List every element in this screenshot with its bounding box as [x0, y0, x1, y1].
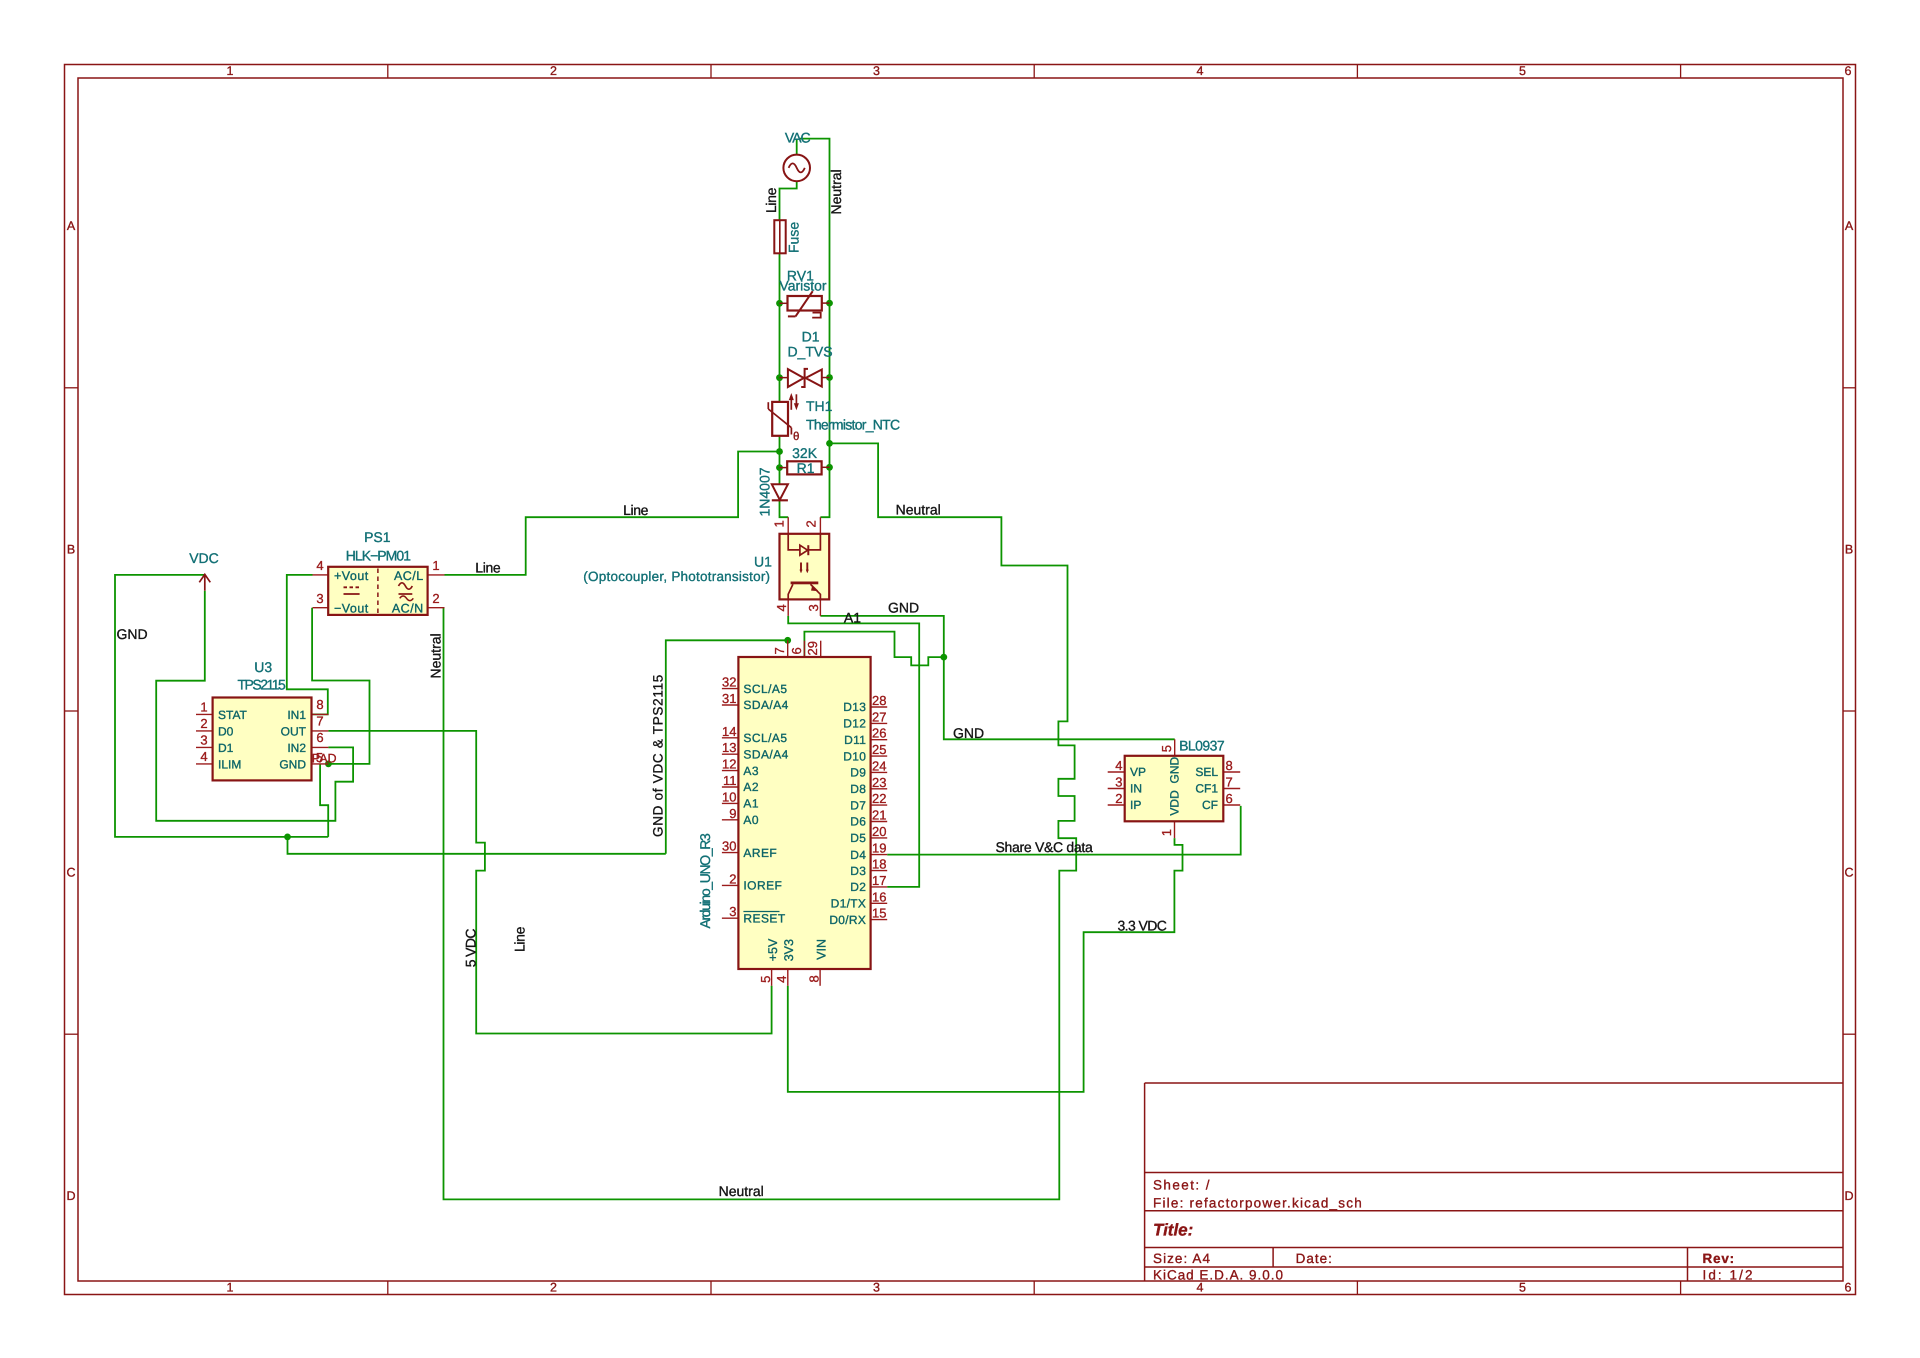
wire line branch to PS1 AC/L [445, 452, 780, 575]
svg-text:3: 3 [873, 64, 880, 78]
svg-text:5: 5 [1519, 1281, 1526, 1295]
svg-text:6: 6 [1845, 64, 1852, 78]
svg-text:Line: Line [512, 926, 528, 952]
wire GND junction to BL0937 pin5 [944, 657, 1175, 739]
svg-text:20: 20 [872, 824, 886, 839]
svg-text:OUT: OUT [281, 724, 307, 738]
svg-text:4: 4 [1197, 1281, 1204, 1295]
svg-text:HLK−PM01: HLK−PM01 [346, 548, 411, 564]
svg-text:Neutral: Neutral [719, 1183, 764, 1199]
svg-text:Line: Line [623, 502, 649, 518]
svg-text:Arduino_UNO_R3: Arduino_UNO_R3 [697, 833, 713, 928]
svg-text:10: 10 [722, 789, 736, 804]
energy meter U2 BL0937 [1108, 738, 1241, 838]
svg-text:D8: D8 [850, 782, 866, 796]
svg-text:IN2: IN2 [287, 741, 306, 755]
svg-text:7: 7 [316, 713, 323, 728]
svg-text:+Vout: +Vout [334, 569, 369, 583]
wire U3 GND pad drop to GND rail [320, 764, 328, 837]
svg-text:1: 1 [227, 1281, 234, 1295]
svg-text:D12: D12 [843, 717, 866, 731]
svg-text:1: 1 [200, 699, 207, 714]
svg-text:D11: D11 [844, 733, 866, 747]
svg-text:19: 19 [872, 841, 886, 856]
fuse Fuse [774, 220, 801, 253]
svg-text:GND: GND [117, 626, 148, 642]
svg-text:5 VDC: 5 VDC [462, 929, 478, 968]
svg-text:2: 2 [550, 1281, 557, 1295]
svg-text:1: 1 [1159, 829, 1174, 836]
wire PS1 +Vout to U3 IN1 [287, 575, 328, 715]
svg-text:23: 23 [872, 775, 886, 790]
svg-text:26: 26 [872, 726, 886, 741]
svg-text:30: 30 [722, 839, 736, 854]
svg-text:SEL: SEL [1195, 765, 1218, 779]
junction GND rail [284, 834, 291, 841]
svg-text:1: 1 [772, 520, 787, 527]
svg-text:3: 3 [200, 732, 207, 747]
svg-text:3V3: 3V3 [782, 939, 796, 961]
svg-text:C: C [1844, 866, 1853, 880]
svg-text:A1: A1 [743, 797, 759, 811]
svg-text:Sheet: /: Sheet: / [1153, 1178, 1211, 1193]
svg-text:15: 15 [872, 906, 886, 921]
svg-text:B: B [67, 543, 75, 557]
svg-text:2: 2 [550, 64, 557, 78]
svg-text:D2: D2 [850, 880, 866, 894]
svg-text:1: 1 [227, 64, 234, 78]
svg-text:18: 18 [872, 857, 886, 872]
wire U1 pin3 to GND junction [820, 616, 943, 657]
wire GND left net [115, 575, 328, 837]
svg-text:8: 8 [806, 975, 821, 982]
junction line branch [776, 448, 783, 455]
ac voltage source VAC [783, 130, 810, 182]
wire U3 GND pad to -Vout [312, 608, 369, 764]
svg-text:16: 16 [872, 889, 886, 904]
svg-text:D5: D5 [850, 831, 866, 845]
junction Arduino pin7 GND [784, 637, 791, 644]
svg-text:B: B [1845, 543, 1853, 557]
svg-text:BL0937: BL0937 [1179, 738, 1225, 754]
svg-text:IP: IP [1130, 798, 1141, 812]
svg-text:27: 27 [872, 709, 886, 724]
svg-text:D0/RX: D0/RX [829, 913, 866, 927]
svg-text:A1: A1 [844, 609, 861, 625]
svg-text:32K: 32K [792, 445, 818, 461]
svg-text:D: D [1844, 1189, 1853, 1203]
svg-text:D0: D0 [218, 724, 234, 738]
svg-text:VIN: VIN [814, 939, 828, 960]
svg-text:Fuse: Fuse [786, 222, 802, 253]
svg-text:Thermistor_NTC: Thermistor_NTC [806, 417, 900, 433]
title block [1145, 1083, 1843, 1283]
svg-text:D1/TX: D1/TX [831, 897, 867, 911]
svg-text:22: 22 [872, 791, 886, 806]
svg-text:2: 2 [1115, 791, 1122, 806]
svg-text:25: 25 [872, 742, 886, 757]
svg-text:D_TVS: D_TVS [787, 344, 832, 360]
svg-text:7: 7 [1226, 775, 1233, 790]
svg-text:14: 14 [722, 724, 736, 739]
svg-text:+5V: +5V [766, 938, 780, 961]
svg-text:A3: A3 [743, 764, 759, 778]
svg-text:6: 6 [316, 730, 323, 745]
svg-text:−Vout: −Vout [334, 602, 369, 616]
svg-text:IN: IN [1130, 782, 1142, 796]
svg-text:Date:: Date: [1296, 1251, 1333, 1266]
junction TVS right [826, 374, 833, 381]
resistor R1 32K [780, 445, 830, 476]
svg-text:1N4007: 1N4007 [756, 467, 772, 516]
svg-text:SCL/A5: SCL/A5 [743, 682, 787, 696]
varistor RV1 [779, 268, 829, 318]
wire neutral branch junction to PS1 AC/N [444, 443, 1077, 1199]
svg-text:IN1: IN1 [287, 708, 306, 722]
svg-text:D1: D1 [802, 329, 820, 345]
optocoupler U1 [583, 517, 829, 616]
svg-text:Line: Line [475, 560, 501, 576]
svg-text:4: 4 [1115, 758, 1122, 773]
svg-text:ILIM: ILIM [218, 757, 241, 771]
svg-text:3: 3 [729, 904, 736, 919]
svg-text:3: 3 [316, 591, 323, 606]
svg-text:Id: 1/2: Id: 1/2 [1703, 1268, 1755, 1283]
svg-text:3: 3 [1115, 775, 1122, 790]
junction varistor left [776, 300, 783, 307]
svg-text:6: 6 [1226, 791, 1233, 806]
svg-text:D13: D13 [843, 700, 866, 714]
wire VAC label to neutral rail [800, 139, 830, 518]
svg-text:TPS2115: TPS2115 [237, 677, 286, 693]
svg-text:28: 28 [872, 693, 886, 708]
svg-text:Neutral: Neutral [428, 633, 444, 678]
svg-text:GND: GND [888, 599, 919, 615]
svg-text:2: 2 [432, 591, 439, 606]
svg-text:AC/L: AC/L [394, 569, 424, 583]
svg-text:4: 4 [774, 976, 789, 983]
svg-text:D6: D6 [850, 815, 866, 829]
svg-text:GND: GND [1167, 757, 1181, 784]
svg-text:Title:: Title: [1153, 1221, 1193, 1240]
svg-text:R1: R1 [797, 460, 815, 476]
svg-text:GND of VDC & TPS2115: GND of VDC & TPS2115 [651, 674, 666, 837]
power mux U3 TPS2115 [196, 659, 337, 781]
wire A1 net U1 pin4 to Arduino D2 [788, 616, 919, 887]
svg-text:AC/N: AC/N [392, 602, 424, 616]
svg-text:1: 1 [432, 558, 439, 573]
svg-text:3: 3 [873, 1281, 880, 1295]
svg-text:KiCad E.D.A. 9.0.0: KiCad E.D.A. 9.0.0 [1153, 1268, 1284, 1283]
junction TVS left [776, 374, 783, 381]
svg-text:5: 5 [1519, 64, 1526, 78]
svg-text:7: 7 [772, 647, 787, 654]
svg-text:D4: D4 [850, 848, 866, 862]
svg-text:5: 5 [316, 750, 323, 765]
svg-text:θ: θ [793, 431, 799, 443]
svg-text:CF: CF [1202, 798, 1218, 812]
svg-text:A0: A0 [743, 813, 759, 827]
svg-text:D3: D3 [850, 864, 866, 878]
junction neutral branch [826, 440, 833, 447]
svg-text:5: 5 [758, 976, 773, 983]
svg-text:D7: D7 [850, 798, 866, 812]
svg-text:D9: D9 [850, 766, 866, 780]
svg-text:SDA/A4: SDA/A4 [743, 698, 788, 712]
svg-text:2: 2 [804, 520, 819, 527]
svg-text:Line: Line [763, 187, 779, 213]
power symbol VDC arrow [199, 574, 210, 590]
svg-text:A: A [1845, 219, 1854, 233]
svg-text:12: 12 [722, 757, 736, 772]
svg-text:CF1: CF1 [1195, 782, 1218, 796]
svg-text:VDD: VDD [1167, 790, 1181, 816]
wire share V&C data Arduino D4 to BL0937 CF [887, 806, 1240, 855]
svg-text:3: 3 [806, 604, 821, 611]
svg-text:D1: D1 [218, 741, 234, 755]
wire Arduino pin6 GND with hop [804, 632, 943, 666]
power supply PS1 HLK-PM01 [313, 529, 445, 616]
svg-text:6: 6 [1845, 1281, 1852, 1295]
wire U3 OUT to Arduino +5V with hop [328, 731, 771, 1034]
svg-text:SDA/A4: SDA/A4 [743, 747, 788, 761]
junction varistor right [826, 300, 833, 307]
svg-text:STAT: STAT [218, 708, 248, 722]
svg-text:Size: A4: Size: A4 [1153, 1251, 1211, 1266]
wire line rail lower [780, 436, 789, 517]
svg-text:17: 17 [872, 873, 886, 888]
svg-text:4: 4 [200, 749, 207, 764]
svg-text:29: 29 [805, 641, 820, 655]
svg-text:4: 4 [316, 558, 323, 573]
svg-text:5: 5 [1159, 745, 1174, 752]
svg-text:4: 4 [774, 604, 789, 611]
svg-text:31: 31 [722, 691, 736, 706]
svg-text:GND: GND [953, 725, 984, 741]
svg-text:6: 6 [789, 647, 804, 654]
svg-text:Share V&C data: Share V&C data [996, 839, 1093, 855]
svg-text:VAC: VAC [785, 130, 811, 146]
svg-text:SCL/A5: SCL/A5 [743, 731, 787, 745]
svg-text:File: refactorpower.kicad_sch: File: refactorpower.kicad_sch [1153, 1196, 1363, 1211]
svg-text:21: 21 [872, 808, 886, 823]
svg-text:RESET: RESET [743, 911, 785, 925]
wire VDC to U3 IN2 [156, 591, 353, 821]
junction R1 left [776, 464, 783, 471]
svg-text:Varistor: Varistor [779, 277, 827, 293]
svg-text:PS1: PS1 [364, 529, 391, 545]
svg-text:(Optocoupler, Phototransistor): (Optocoupler, Phototransistor) [583, 569, 770, 584]
diode 1N4007 [756, 467, 788, 516]
svg-text:Neutral: Neutral [896, 501, 941, 517]
thermistor TH1 [768, 394, 900, 443]
svg-text:13: 13 [722, 740, 736, 755]
svg-text:GND: GND [279, 757, 306, 771]
svg-text:D: D [66, 1189, 75, 1203]
svg-text:TH1: TH1 [806, 398, 833, 414]
svg-text:8: 8 [1226, 758, 1233, 773]
svg-text:32: 32 [722, 675, 736, 690]
svg-text:9: 9 [729, 806, 736, 821]
svg-text:A: A [67, 219, 76, 233]
wire VAC source to line rail [796, 139, 798, 155]
svg-text:8: 8 [316, 697, 323, 712]
svg-text:U3: U3 [254, 659, 272, 675]
svg-text:D10: D10 [843, 749, 866, 763]
svg-text:A2: A2 [743, 780, 759, 794]
junction R1 right [826, 464, 833, 471]
junction U3 GND pad [325, 761, 332, 768]
svg-text:AREF: AREF [743, 846, 777, 860]
svg-text:U1: U1 [754, 553, 772, 569]
svg-text:Neutral: Neutral [828, 169, 844, 214]
svg-text:4: 4 [1197, 64, 1204, 78]
svg-text:2: 2 [729, 871, 736, 886]
svg-text:Rev:: Rev: [1703, 1251, 1735, 1266]
svg-text:24: 24 [872, 758, 886, 773]
wire 3.3VDC Arduino 3V3 to BL0937 VDD [788, 838, 1183, 1092]
TVS diode D1 [780, 329, 833, 388]
junction GND node [940, 654, 947, 661]
svg-text:IOREF: IOREF [743, 879, 782, 893]
svg-text:2: 2 [200, 716, 207, 731]
svg-text:VP: VP [1130, 765, 1146, 779]
svg-text:VDC: VDC [189, 550, 219, 566]
svg-text:11: 11 [723, 773, 737, 788]
svg-text:C: C [66, 866, 75, 880]
wire GND spur to Arduino pin7 rail [288, 837, 666, 854]
svg-text:3.3 VDC: 3.3 VDC [1118, 917, 1167, 933]
Arduino UNO R3 A1 [697, 640, 887, 986]
wire Arduino pin7 GND [666, 640, 788, 854]
